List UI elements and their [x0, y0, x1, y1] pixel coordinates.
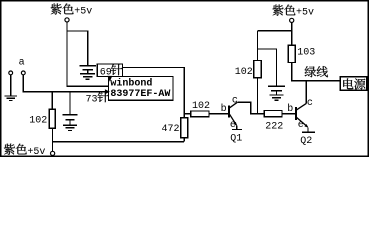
- wire: [51, 128, 53, 151]
- wire: [184, 113, 191, 115]
- svg-text:b: b: [221, 103, 227, 115]
- pin 73 arrow: [105, 89, 110, 94]
- terminal +5V (bottom): [51, 151, 55, 155]
- ground (under C2): [63, 125, 77, 130]
- border frame: [1, 1, 368, 156]
- svg-text:102: 102: [235, 67, 253, 78]
- wire: [183, 67, 185, 118]
- svg-text:a: a: [19, 57, 25, 68]
- terminal a: [21, 71, 25, 75]
- capacitor C3: [268, 86, 285, 90]
- svg-text:c: c: [232, 96, 238, 107]
- Q2 emitter: [297, 117, 309, 131]
- IC U1 winbond 83977EF-AW: [109, 76, 174, 100]
- Q2 emitter bar: [302, 131, 315, 133]
- transistor Q1 base bar: [228, 105, 230, 117]
- Q1 collector: [230, 102, 265, 113]
- svg-text:222: 222: [265, 121, 283, 132]
- pin label box 69针: [97, 64, 122, 77]
- wire: [257, 31, 259, 61]
- resistor R-102c: [254, 61, 261, 78]
- wire: [291, 23, 293, 46]
- svg-text:b: b: [287, 103, 293, 115]
- svg-text:73: 73: [86, 94, 98, 105]
- svg-text:83977EF-AW: 83977EF-AW: [110, 89, 170, 100]
- wire: [66, 85, 108, 87]
- wire: [69, 120, 71, 125]
- resistor R-222: [264, 111, 282, 117]
- pin 69 arrow: [107, 76, 112, 82]
- wire: [183, 138, 185, 142]
- capacitor C2: [63, 115, 78, 120]
- power source box 电源: [340, 77, 366, 90]
- resistor R-102a: [49, 109, 55, 128]
- svg-text:102: 102: [192, 101, 210, 112]
- resistor R-103: [288, 45, 295, 62]
- Q2 collector: [297, 81, 307, 110]
- label 紫色+5v (top-right): [273, 5, 315, 19]
- wire: [276, 91, 278, 95]
- resistor R-472: [181, 118, 188, 138]
- svg-text:winbond: winbond: [110, 78, 152, 90]
- wire 绿线 (green wire): [291, 80, 340, 82]
- wire: [291, 63, 293, 82]
- svg-text:103: 103: [297, 48, 315, 59]
- wire: [282, 113, 295, 115]
- terminal (ground wire): [9, 71, 13, 75]
- wire: [87, 70, 89, 74]
- Q1 emitter: [230, 114, 237, 128]
- svg-text:102: 102: [29, 115, 47, 126]
- wire: [51, 92, 53, 110]
- svg-text:e: e: [298, 120, 304, 131]
- wire: [10, 75, 12, 95]
- wire: [67, 31, 88, 65]
- resistor R-102b: [191, 111, 209, 117]
- terminal +5V (top-right): [290, 18, 294, 22]
- wire: [258, 49, 277, 86]
- wire: [209, 113, 228, 115]
- capacitor C1: [79, 66, 96, 70]
- svg-text:+5v: +5v: [74, 7, 92, 18]
- svg-text:+5v: +5v: [27, 147, 45, 157]
- label 69针: [100, 64, 122, 78]
- label 紫色+5v (bottom-left): [4, 144, 46, 158]
- label 73针: [86, 91, 109, 105]
- wire bottom bus: [52, 141, 184, 143]
- svg-text:472: 472: [162, 124, 180, 135]
- terminal +5V (top-left): [65, 18, 69, 22]
- label 紫色+5v (top-left): [51, 4, 74, 15]
- ground (under C3): [270, 95, 284, 100]
- wire node a: [23, 75, 105, 92]
- wire: [257, 78, 259, 114]
- transistor Q2 base bar: [295, 107, 297, 120]
- svg-text:c: c: [307, 98, 313, 109]
- svg-text:Q2: Q2: [300, 136, 312, 147]
- wire: [123, 67, 185, 69]
- wire: [258, 30, 293, 32]
- svg-text:+5v: +5v: [296, 8, 314, 19]
- ground (left): [4, 96, 17, 101]
- wire: [66, 22, 68, 86]
- wire: [69, 92, 71, 114]
- label 绿线: [305, 66, 328, 77]
- svg-text:Q1: Q1: [230, 134, 242, 145]
- Q1 emitter bar: [232, 129, 242, 131]
- ground (under C1): [80, 74, 95, 79]
